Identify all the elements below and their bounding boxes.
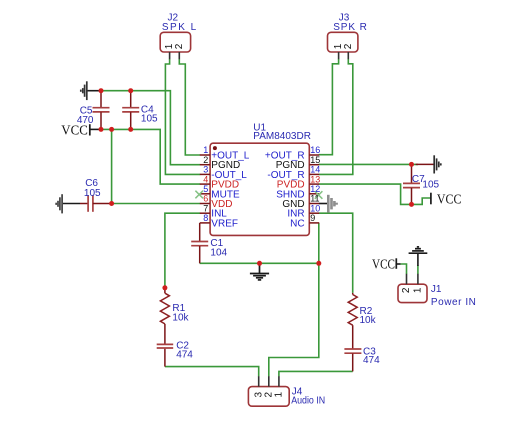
svg-text:10: 10 xyxy=(310,203,320,213)
wire U1 pin15 PGND row xyxy=(319,163,418,165)
svg-text:8: 8 xyxy=(203,213,208,223)
svg-text:J1: J1 xyxy=(431,284,442,295)
svg-text:2: 2 xyxy=(343,43,354,49)
wire ground to C5 row xyxy=(87,90,101,92)
ground right of C7 xyxy=(416,155,441,173)
svg-text:5: 5 xyxy=(203,184,208,194)
resistor R2 10k xyxy=(348,293,376,349)
node VREF net junction xyxy=(316,261,321,266)
connector J3 SPK R xyxy=(328,13,367,60)
svg-text:3: 3 xyxy=(203,165,208,175)
net label VCC left xyxy=(61,124,90,139)
wire J2 pin2 to U1 pin1 xyxy=(179,59,200,155)
wire C3 to J4 pin1 xyxy=(279,371,353,376)
svg-text:9: 9 xyxy=(310,213,315,223)
wire VCC flag to C5 bottom row xyxy=(90,128,101,130)
wire J2 pin1 to U1 pin3 xyxy=(165,59,200,174)
wire VDD branch xyxy=(112,129,201,203)
capacitor C2 474 xyxy=(157,341,194,367)
J4 pin stubs xyxy=(258,376,260,386)
U1 left pin numbers xyxy=(203,145,208,223)
node ground stem junction xyxy=(257,261,262,266)
svg-text:16: 16 xyxy=(310,145,320,155)
connector J1 Power IN xyxy=(398,274,476,308)
node C7 bottom / VCC junction xyxy=(409,202,414,207)
svg-text:VCC: VCC xyxy=(372,257,395,272)
wire U1 pin10 INR to R2 xyxy=(319,213,353,293)
svg-text:12: 12 xyxy=(310,184,320,194)
capacitor C3 474 xyxy=(344,347,380,372)
ground above J1 xyxy=(409,247,428,253)
wire ground to J1 pin1 xyxy=(417,265,419,274)
node C4 top junction xyxy=(128,88,133,93)
wire U1 pin9 down xyxy=(318,223,320,263)
svg-text:VCC: VCC xyxy=(437,193,462,208)
svg-text:105: 105 xyxy=(141,113,158,124)
svg-text:10k: 10k xyxy=(360,315,377,326)
J1 pin stubs xyxy=(406,274,408,284)
node C6 / VDD junction xyxy=(109,201,114,206)
U1 left pin stubs xyxy=(200,155,210,223)
svg-text:4: 4 xyxy=(203,174,208,184)
ground at U1 pin11 (gray) xyxy=(328,195,336,213)
svg-text:SPK L: SPK L xyxy=(162,22,197,33)
U1 body xyxy=(210,143,309,235)
svg-text:105: 105 xyxy=(84,188,101,199)
svg-text:7: 7 xyxy=(203,203,208,213)
wire J3 pin1 to U1 pin16 xyxy=(319,59,339,155)
capacitor C1 104 xyxy=(191,223,227,263)
ground below C1 row xyxy=(250,263,269,280)
wire node to J4 pin2 xyxy=(269,263,319,376)
op-amp U1 PAM8403DR xyxy=(195,123,322,236)
svg-text:2: 2 xyxy=(174,43,185,49)
wire J1 pin1 ground stem xyxy=(417,253,419,266)
U1 pin 12 no-connect X xyxy=(315,191,323,199)
net label VCC right of C7 xyxy=(431,193,462,208)
node C5 top junction xyxy=(99,88,104,93)
svg-text:6: 6 xyxy=(203,194,208,204)
wire U1 pin13 PVDD to C7 xyxy=(319,184,412,204)
svg-text:10k: 10k xyxy=(172,312,189,323)
svg-text:474: 474 xyxy=(363,355,380,366)
net label VCC at J1 xyxy=(372,257,396,272)
svg-text:104: 104 xyxy=(210,248,227,259)
svg-text:105: 105 xyxy=(422,179,439,190)
svg-text:13: 13 xyxy=(310,174,320,184)
svg-text:NC: NC xyxy=(290,218,304,229)
node R1 top junction xyxy=(162,285,167,290)
U1 left pin names xyxy=(211,151,250,230)
wire C7 bottom to VCC flag xyxy=(412,198,431,204)
wire J3 pin2 to U1 pin14 xyxy=(319,59,353,174)
capacitor C7 105 xyxy=(403,164,440,204)
ground at C6 xyxy=(56,194,62,213)
J3 pin stubs xyxy=(338,52,340,59)
wire VCC row to U1 pin4 xyxy=(101,129,200,184)
wire VCC flag to J1 pin2 xyxy=(401,264,407,274)
connector J2 SPK L xyxy=(160,13,196,60)
U1 right pin names xyxy=(265,151,305,230)
capacitor C6 105 xyxy=(80,178,112,212)
wire ground to C6 xyxy=(62,203,80,205)
wire C1 bottom row xyxy=(200,262,319,264)
svg-text:VCC: VCC xyxy=(61,124,88,139)
node C7 top / PGND junction xyxy=(409,162,414,167)
svg-text:1: 1 xyxy=(413,287,424,293)
U1 pin 5 no-connect X xyxy=(195,191,203,199)
svg-text:11: 11 xyxy=(310,194,319,204)
U1 right pin stubs xyxy=(309,155,319,223)
connector J4 Audio IN xyxy=(248,376,325,406)
svg-text:15: 15 xyxy=(310,155,320,165)
svg-text:474: 474 xyxy=(176,350,193,361)
wire U1 pin11 GND to ground xyxy=(319,203,328,205)
capacitor C4 105 xyxy=(122,91,158,130)
svg-text:PAM8403DR: PAM8403DR xyxy=(253,131,311,142)
node C4 bottom junction xyxy=(128,127,133,132)
svg-text:Power IN: Power IN xyxy=(431,297,476,308)
wire ground row to U1 pin2 xyxy=(101,91,200,165)
ground top-left xyxy=(81,81,87,100)
black wire segments xyxy=(62,91,418,266)
J2 pin stubs xyxy=(169,52,171,59)
svg-text:14: 14 xyxy=(310,165,320,175)
svg-text:Audio IN: Audio IN xyxy=(291,396,325,407)
svg-text:1: 1 xyxy=(274,391,285,397)
svg-text:SPK R: SPK R xyxy=(333,22,367,33)
capacitor C5 470 xyxy=(77,91,110,130)
wire C2 to J4 pin3 xyxy=(165,367,259,377)
svg-text:2: 2 xyxy=(401,287,412,293)
wire U1 pin7 INL to R1 xyxy=(165,213,200,288)
U1 right pin numbers xyxy=(310,145,320,223)
svg-text:1: 1 xyxy=(203,145,208,155)
node VDD branch junction xyxy=(109,127,114,132)
svg-text:2: 2 xyxy=(203,155,208,165)
resistor R1 10k xyxy=(160,288,189,344)
node VCC / C5 bottom junction xyxy=(99,127,104,132)
svg-text:VREF: VREF xyxy=(211,218,238,229)
